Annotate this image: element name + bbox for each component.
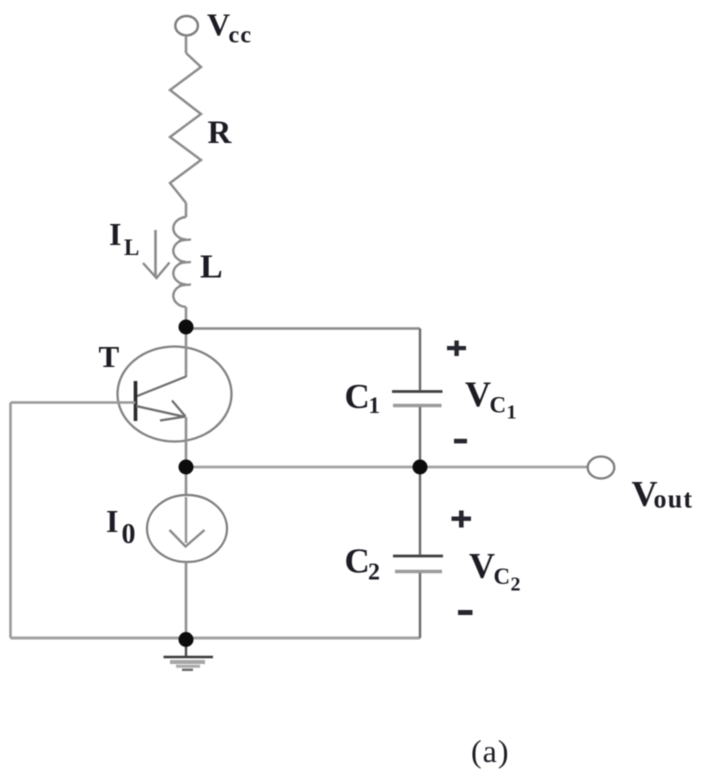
svg-text:C: C bbox=[490, 393, 507, 418]
svg-text:out: out bbox=[654, 485, 694, 514]
svg-text:1: 1 bbox=[507, 402, 517, 424]
svg-text:V: V bbox=[469, 546, 495, 586]
svg-text:cc: cc bbox=[229, 23, 253, 49]
svg-text:C: C bbox=[345, 377, 370, 416]
svg-text:V: V bbox=[465, 374, 491, 414]
svg-text:V: V bbox=[207, 7, 230, 43]
svg-text:2: 2 bbox=[368, 560, 380, 586]
svg-text:R: R bbox=[208, 115, 233, 151]
svg-text:0: 0 bbox=[122, 519, 136, 550]
svg-text:2: 2 bbox=[511, 574, 521, 596]
svg-text:L: L bbox=[200, 249, 223, 286]
svg-text:C: C bbox=[494, 564, 511, 589]
svg-text:C: C bbox=[345, 542, 370, 581]
svg-text:T: T bbox=[99, 339, 120, 374]
svg-text:(a): (a) bbox=[471, 733, 510, 769]
svg-text:I: I bbox=[109, 216, 121, 252]
svg-text:L: L bbox=[124, 235, 139, 260]
svg-text:1: 1 bbox=[369, 393, 381, 418]
svg-text:I: I bbox=[106, 503, 118, 539]
